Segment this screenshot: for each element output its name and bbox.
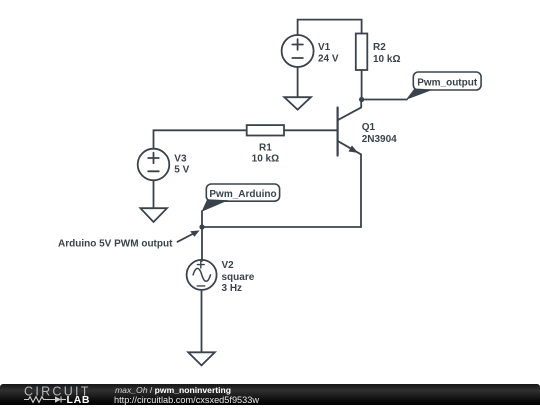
annotation arrow [178,230,200,241]
wire junction to Pwm_output flag [362,99,407,101]
voltage source V3 [138,149,170,181]
wire flag tail to node [201,211,203,227]
wire node to V2 [201,227,203,261]
wire V3+ to R1 [154,130,247,149]
wire node to emitter (bottom) [202,226,361,228]
wire base R1 to Q1 [284,129,337,131]
wire emitter down [360,155,362,228]
wire V1+ to R2 top [298,20,362,36]
svg-text:square: square [222,272,255,283]
footer title [115,385,231,395]
svg-text:2N3904: 2N3904 [362,134,397,145]
svg-text:10 kΩ: 10 kΩ [252,154,279,165]
svg-text:Arduino 5V PWM output: Arduino 5V PWM output [58,238,173,249]
CircuitLab logo [22,385,100,405]
svg-text:5 V: 5 V [174,165,189,176]
ground (bottom) [188,352,215,365]
wire V1- to ground [297,67,299,97]
wire V3- to ground [153,180,155,208]
svg-text:3 Hz: 3 Hz [222,283,243,294]
svg-text:24 V: 24 V [318,53,339,64]
net flag Pwm_output [406,72,481,100]
voltage source V2 [187,260,217,290]
wire R2 bottom to junction [361,70,363,100]
svg-text:Q1: Q1 [362,122,376,133]
svg-text:10 kΩ: 10 kΩ [373,54,400,65]
svg-text:Pwm_Arduino: Pwm_Arduino [209,189,276,200]
svg-text:V2: V2 [222,260,235,271]
resistor R1 [247,125,284,135]
node Arduino PWM [199,224,204,229]
svg-text:LAB: LAB [67,394,91,405]
svg-text:Pwm_output: Pwm_output [417,78,478,89]
svg-text:R1: R1 [259,142,272,153]
ground (below V3) [140,208,167,222]
footer bar [0,384,540,405]
svg-text:V3: V3 [174,153,187,164]
node collector junction [359,97,364,102]
wire V2- to ground [201,290,203,352]
voltage source V1 [282,35,314,67]
resistor R2 [356,34,368,71]
footer url [114,395,259,405]
svg-text:V1: V1 [318,42,331,53]
transistor Q1 [338,100,362,156]
svg-text:R2: R2 [373,42,386,53]
net flag Pwm_Arduino [202,184,280,212]
ground (below V1) [284,97,311,109]
